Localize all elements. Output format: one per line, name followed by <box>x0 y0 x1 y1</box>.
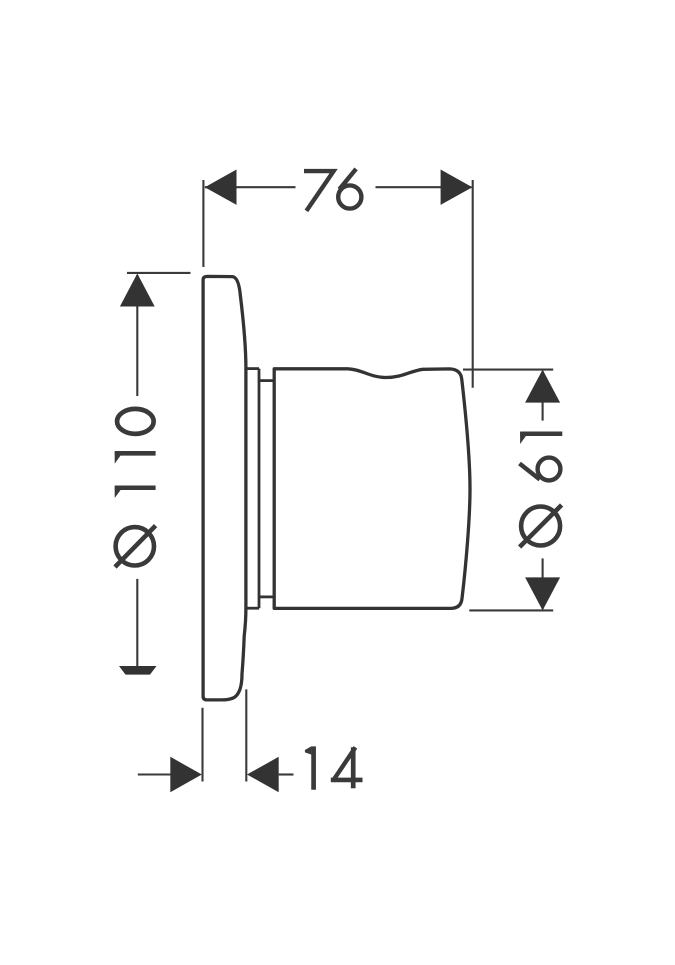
bottom extension line <box>469 609 553 611</box>
dim line right segment <box>376 186 472 188</box>
arrow right of 76 <box>441 170 473 205</box>
left extension line <box>201 708 203 782</box>
dimension 14 <box>138 689 294 781</box>
arrow left of 14 <box>170 757 202 792</box>
dim line left segment <box>205 186 296 188</box>
dim line lower segment <box>542 558 544 609</box>
handle knob <box>274 369 470 609</box>
dim line upper segment <box>136 275 138 396</box>
arrow up of Ø110 <box>120 274 155 307</box>
sleeve ring B <box>259 381 274 597</box>
left tail line <box>138 773 171 775</box>
right extension line <box>245 689 247 781</box>
bottom bar of Ø110 <box>119 666 157 675</box>
dimension Ø61 <box>463 370 553 611</box>
arrow up of Ø61 <box>525 370 560 403</box>
arrow down of Ø61 <box>525 577 560 610</box>
right extension line <box>472 180 474 388</box>
diameter symbol of Ø110 <box>115 526 156 567</box>
dimension Ø110 <box>127 273 191 666</box>
dimension 76 <box>203 180 472 388</box>
dim line lower segment <box>136 579 138 666</box>
diameter symbol of Ø61 <box>520 505 562 547</box>
label 14 <box>314 746 363 789</box>
label 110 <box>115 409 156 488</box>
escutcheon plate (side view) <box>203 276 246 700</box>
top extension line <box>127 272 191 274</box>
arrow right of 14 <box>247 757 279 792</box>
dim line upper segment <box>542 371 544 421</box>
arrow left of 76 <box>205 170 237 205</box>
top extension line <box>463 369 553 371</box>
label 76 <box>304 169 361 211</box>
right tail line <box>279 773 294 775</box>
left extension line <box>202 180 204 267</box>
label 61 <box>520 434 563 481</box>
sleeve ring A <box>246 369 259 609</box>
